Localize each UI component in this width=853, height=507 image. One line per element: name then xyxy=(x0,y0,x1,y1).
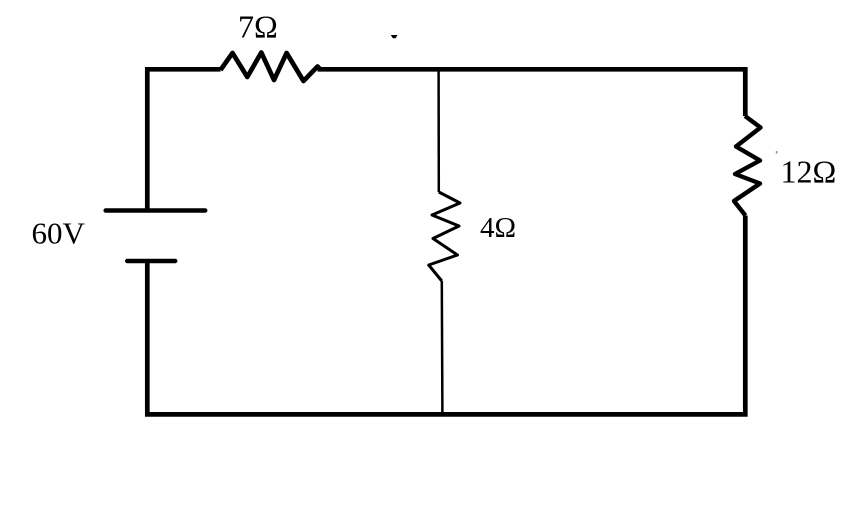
svg-text:60V: 60V xyxy=(32,216,86,251)
svg-text:4Ω: 4Ω xyxy=(480,212,516,244)
svg-text:12Ω: 12Ω xyxy=(781,154,837,190)
svg-text:7Ω: 7Ω xyxy=(238,9,278,45)
